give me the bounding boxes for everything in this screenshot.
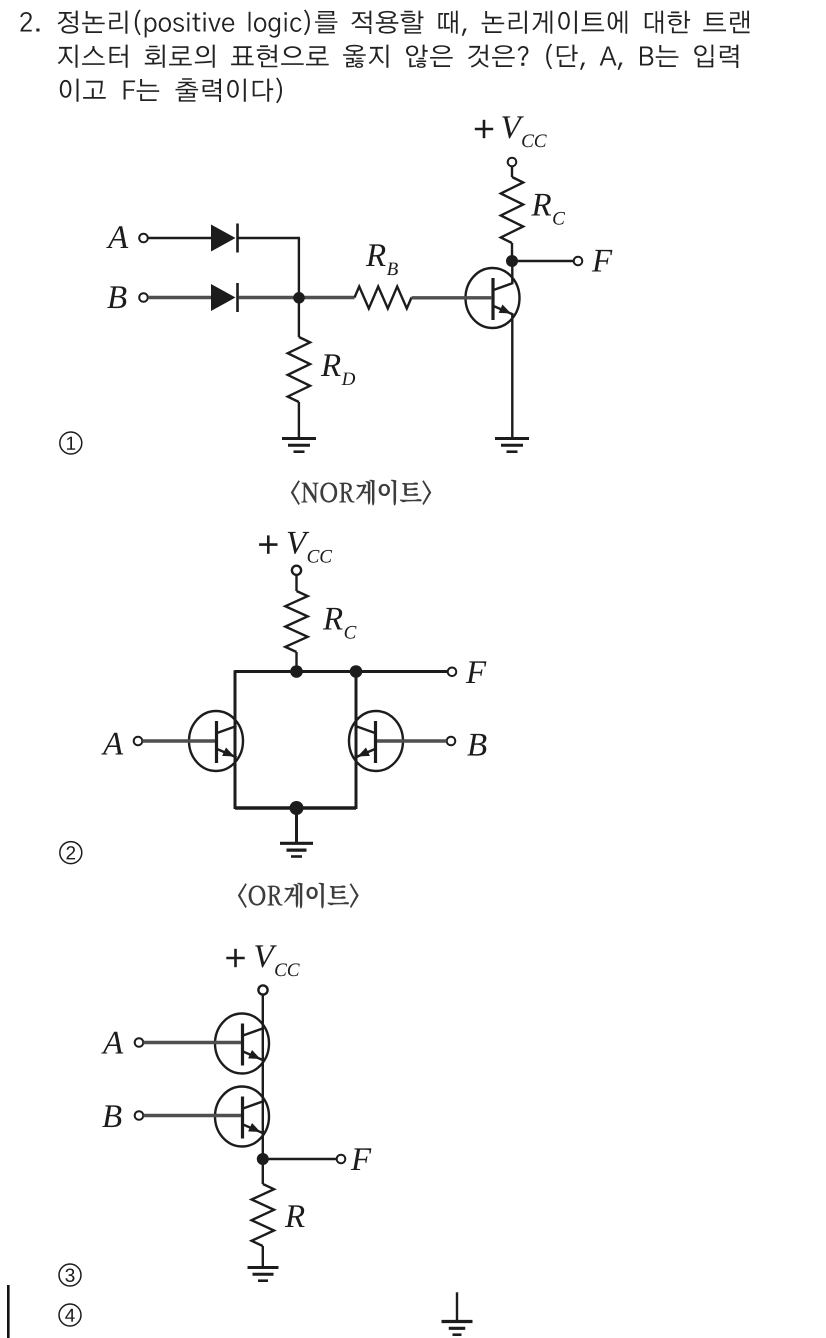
- transistor Q3 (input B): [349, 711, 403, 771]
- label B input: [107, 286, 126, 308]
- label B circuit 3: [102, 1105, 121, 1127]
- node emitter junction circuit 3: [257, 1153, 269, 1165]
- label B circuit 2: [467, 734, 486, 756]
- terminal B circuit 2: [447, 737, 456, 746]
- label A input: [106, 226, 128, 248]
- junction node circuit 1: [293, 292, 305, 304]
- wire collector rail Q1: [511, 266, 513, 284]
- wire B to base Q5: [144, 1114, 242, 1117]
- Vcc terminal circuit 3: [258, 985, 267, 994]
- series rail circuit 3: [262, 995, 264, 1160]
- node right branch top rail: [350, 665, 363, 678]
- label A circuit 2: [101, 733, 123, 755]
- label RC circuit 1: [531, 194, 565, 225]
- top rail circuit 2: [235, 670, 448, 673]
- question text line 2: [58, 44, 739, 70]
- wire diode A to corner: [239, 237, 301, 239]
- Vcc terminal circuit 1: [508, 158, 517, 167]
- scan artifact left edge: [7, 1285, 10, 1338]
- transistor Q2 (input A): [189, 711, 243, 771]
- wire node to F terminal: [512, 260, 574, 262]
- left branch rail: [234, 670, 237, 809]
- choice marker 4: [59, 1304, 81, 1326]
- wire junction to RD: [298, 298, 300, 337]
- choice marker 1: [60, 432, 82, 454]
- wire emitter to ground Q1: [511, 314, 513, 437]
- label RD: [321, 354, 355, 385]
- diode D1 (input A): [211, 225, 236, 252]
- wire node to R circuit 3: [262, 1159, 264, 1184]
- wire R to ground circuit 3: [262, 1246, 264, 1267]
- caption OR gate: [238, 883, 359, 909]
- terminal A circuit 2: [134, 737, 143, 746]
- label R circuit 3: [285, 1205, 305, 1227]
- ground circuit 2: [280, 842, 313, 845]
- Vcc terminal circuit 2: [292, 566, 301, 575]
- ground symbol choice 4: [456, 1292, 458, 1321]
- wire Vcc to RC: [511, 167, 513, 178]
- terminal A circuit 3: [135, 1038, 144, 1047]
- wire A to base Q4: [144, 1041, 242, 1044]
- choice marker 3: [59, 1264, 81, 1286]
- label F circuit 1: [592, 250, 613, 272]
- question text line 1: [20, 10, 749, 38]
- ground under Q1: [495, 437, 529, 440]
- wire A to diode: [148, 237, 212, 239]
- label RC circuit 2: [323, 608, 357, 639]
- resistor R circuit 3: [252, 1184, 274, 1246]
- resistor RC circuit 1: [501, 177, 523, 243]
- resistor RD: [288, 337, 310, 402]
- ground circuit 3: [248, 1266, 279, 1269]
- terminal B circuit 3: [135, 1111, 144, 1120]
- label A circuit 3: [101, 1032, 123, 1054]
- wire B to diode: [148, 296, 212, 299]
- node RC top rail: [290, 665, 303, 678]
- wire RC to collector node: [511, 243, 513, 261]
- Vcc supply label circuit 1: [475, 128, 493, 131]
- transistor Q1: [466, 268, 520, 328]
- wire A to base Q2: [143, 739, 216, 742]
- wire RC to top rail: [295, 652, 297, 672]
- wire diode B to RB: [239, 296, 355, 299]
- label F circuit 2: [466, 661, 487, 683]
- diode D2 (input B): [211, 284, 236, 311]
- label RB: [366, 244, 398, 275]
- node collector junction circuit 1: [506, 255, 518, 267]
- transistor Q5 (input B): [215, 1087, 269, 1147]
- wire bottom rail to ground: [295, 808, 298, 843]
- transistor Q4 (input A): [215, 1014, 269, 1074]
- question text line 3: [60, 78, 282, 104]
- right branch rail: [355, 670, 358, 809]
- wire Vcc to RC circuit 2: [295, 575, 297, 591]
- wire RD to ground: [298, 402, 300, 437]
- wire node to F circuit 3: [263, 1158, 337, 1160]
- Vcc supply label circuit 2: [259, 543, 277, 546]
- choice marker 2: [60, 842, 82, 864]
- terminal F circuit 3: [337, 1155, 346, 1164]
- caption NOR gate: [291, 480, 431, 506]
- terminal A circuit 1: [139, 234, 148, 243]
- terminal F circuit 2: [448, 668, 457, 677]
- Vcc supply label circuit 3: [226, 957, 244, 960]
- wire RB to base Q1: [412, 296, 493, 299]
- terminal F circuit 1: [574, 257, 583, 266]
- resistor RC circuit 2: [285, 591, 307, 652]
- wire base Q3 to B: [377, 739, 447, 742]
- node bottom rail: [290, 801, 304, 815]
- label F circuit 3: [351, 1148, 372, 1170]
- resistor RB: [355, 287, 412, 309]
- bottom rail circuit 2: [235, 806, 356, 809]
- ground under RD: [282, 437, 316, 440]
- terminal B circuit 1: [139, 293, 148, 302]
